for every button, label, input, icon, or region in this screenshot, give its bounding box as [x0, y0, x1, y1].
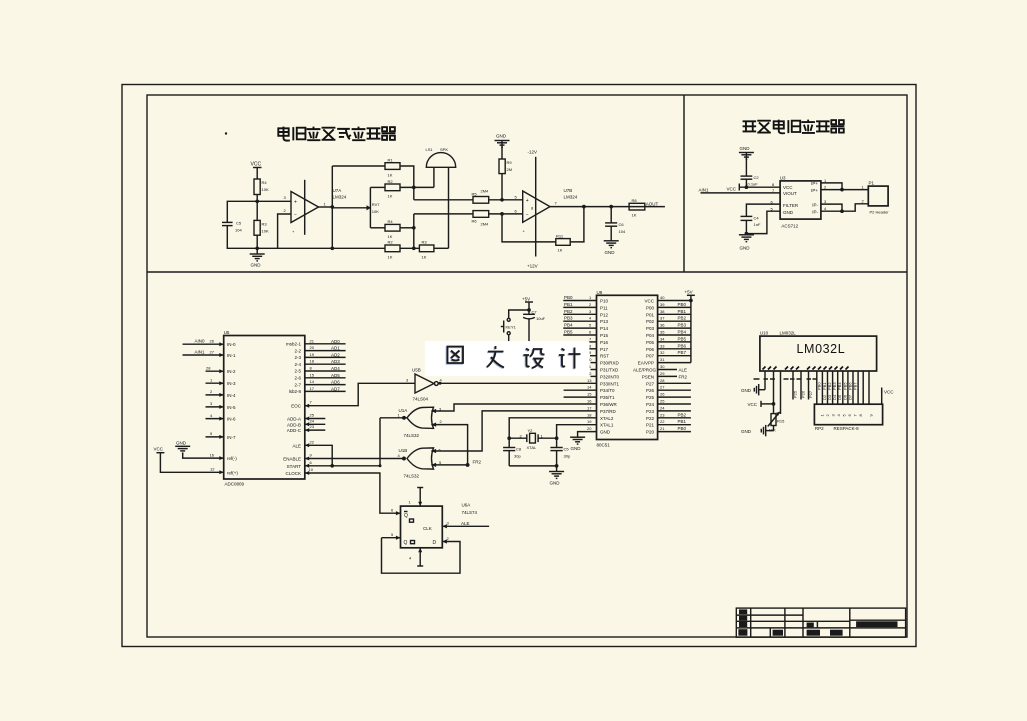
capacitor C5 104: [222, 221, 242, 233]
wire GND to ref(-) pin16: [183, 452, 224, 460]
svg-text:P11: P11: [600, 305, 608, 310]
wire U1B input6 to P37: [431, 411, 596, 453]
svg-text:R4: R4: [262, 180, 268, 185]
svg-text:+5V: +5V: [685, 290, 693, 295]
svg-text:2-6: 2-6: [294, 376, 301, 381]
ground (ADC ref-): [175, 440, 190, 453]
wire inverting input feedback: [278, 214, 291, 248]
FF preset pin1: [409, 488, 424, 507]
wire EOC pin7 to inverter: [305, 383, 415, 407]
svg-text:GND: GND: [600, 430, 611, 435]
wire ADD-B pin24: [305, 418, 326, 426]
resistor network RP2 RESPACK-8: [814, 404, 882, 431]
ground (top of C2): [739, 146, 754, 176]
svg-text:R15: R15: [777, 419, 785, 424]
svg-text:GND: GND: [571, 446, 582, 451]
key switch KEY1: [501, 310, 529, 341]
junction at ground tap: [255, 246, 259, 250]
wires P00-P07 stubs with PB labels: [658, 302, 691, 356]
svg-text:EA/VPP: EA/VPP: [638, 361, 654, 366]
svg-text:IN-7: IN-7: [227, 435, 236, 440]
svg-text:39: 39: [660, 302, 665, 307]
svg-text:P27: P27: [646, 381, 655, 386]
svg-text:R8: R8: [632, 198, 638, 203]
svg-text:AD6: AD6: [331, 380, 340, 385]
svg-text:IP+: IP+: [811, 181, 818, 186]
svg-text:10K: 10K: [262, 187, 269, 192]
svg-text:U7B: U7B: [564, 188, 573, 193]
svg-text:PB0: PB0: [817, 382, 822, 390]
svg-text:15: 15: [310, 372, 315, 377]
VCC power symbol: [251, 162, 262, 180]
svg-text:25: 25: [310, 413, 315, 418]
power -12V: [528, 150, 538, 155]
svg-text:P10: P10: [600, 299, 609, 304]
svg-text:VCC: VCC: [644, 299, 654, 304]
svg-text:+: +: [526, 198, 529, 204]
wire bridge top rail: [332, 165, 385, 167]
wire IN-5 pin3: [206, 401, 224, 409]
section divider horizontal: [147, 271, 907, 273]
svg-text:RESPACK-8: RESPACK-8: [834, 426, 860, 431]
svg-text:P26: P26: [646, 388, 655, 393]
svg-text:74LS04: 74LS04: [413, 397, 429, 402]
svg-text:ALE: ALE: [461, 521, 470, 526]
svg-text:IN-2: IN-2: [227, 369, 236, 374]
ground (C6): [604, 241, 619, 255]
svg-text:21: 21: [310, 338, 315, 343]
wires P16 P17 stubs: [587, 341, 597, 343]
svg-text:23: 23: [660, 412, 665, 417]
wire R5 to +input: [489, 199, 523, 201]
svg-text:IP-: IP-: [812, 210, 818, 215]
wire LCD pin3 to pot wiper: [780, 371, 782, 414]
wire rail mid: [400, 247, 419, 249]
wires P27-P23 stubs: [658, 382, 691, 384]
resistor R11 1K: [556, 234, 570, 253]
svg-text:U1A: U1A: [399, 408, 408, 413]
wire IN-6 pin4: [206, 413, 224, 421]
crystal Y2 XTAL: [507, 428, 558, 450]
svg-text:+5V: +5V: [522, 296, 530, 301]
svg-text:U5B: U5B: [412, 368, 421, 373]
svg-text:21: 21: [660, 426, 665, 431]
svg-text:P24: P24: [646, 402, 655, 407]
svg-text:C7: C7: [532, 310, 538, 315]
svg-text:P12: P12: [600, 312, 609, 317]
svg-text:ref(+): ref(+): [227, 470, 238, 475]
op-amp U7A LM324: [284, 180, 347, 235]
svg-text:+: +: [294, 199, 297, 205]
wire C4 to ground: [745, 220, 747, 233]
svg-text:P00: P00: [646, 305, 655, 310]
wire GND pin to ground: [746, 211, 780, 233]
wire FILTER to C4: [746, 204, 780, 216]
section divider vertical: [683, 95, 685, 272]
resistor R6 2M4: [472, 211, 490, 227]
svg-text:PB6: PB6: [678, 343, 687, 348]
svg-text:GND: GND: [176, 440, 187, 445]
svg-text:CLK: CLK: [423, 526, 432, 531]
wire C5 to bottom rail: [227, 226, 257, 249]
svg-text:AD3: AD3: [331, 359, 340, 364]
svg-text:-12V: -12V: [528, 150, 538, 155]
svg-text:20: 20: [587, 426, 592, 431]
svg-text:P25: P25: [792, 390, 797, 398]
svg-text:PB0: PB0: [564, 295, 573, 300]
resistor R1 1K: [385, 158, 400, 178]
op-amp U7B LM324: [515, 157, 578, 257]
svg-text:2M4: 2M4: [481, 189, 490, 194]
svg-text:R1: R1: [388, 158, 394, 163]
wire bridge mid rail: [370, 186, 385, 188]
wire feedback loop: [502, 207, 584, 242]
svg-text:19: 19: [310, 352, 315, 357]
svg-text:C2: C2: [754, 175, 760, 180]
svg-text:P2 Header: P2 Header: [870, 210, 890, 215]
wires P22-P20 stubs with labels: [658, 412, 691, 431]
svg-text:XTAL: XTAL: [527, 445, 537, 450]
svg-text:GND: GND: [550, 481, 561, 486]
svg-text:R2: R2: [388, 179, 394, 184]
svg-text:1K: 1K: [558, 248, 563, 253]
svg-text:2M4: 2M4: [481, 222, 490, 227]
svg-text:PB1: PB1: [678, 309, 687, 314]
svg-text:U5: U5: [224, 330, 230, 335]
capacitor C6 104: [605, 207, 626, 241]
svg-text:ADD-A: ADD-A: [287, 417, 301, 422]
wire opamp output: [319, 206, 333, 208]
OR gate U1A 74LS32 (mirrored): [398, 407, 443, 439]
svg-text:SPK: SPK: [440, 147, 448, 152]
svg-text:PB5: PB5: [678, 336, 687, 341]
svg-text:GND: GND: [783, 210, 794, 215]
svg-text:IP-: IP-: [812, 203, 818, 208]
svg-text:25: 25: [660, 399, 665, 404]
svg-text:18: 18: [587, 412, 592, 417]
svg-text:U1B: U1B: [399, 448, 408, 453]
svg-text:D: D: [433, 540, 437, 546]
svg-text:P30/RXD: P30/RXD: [600, 361, 620, 366]
svg-text:ref(-): ref(-): [227, 456, 237, 461]
wire speaker right leg: [448, 167, 450, 248]
svg-text:23: 23: [310, 424, 315, 429]
svg-text:VCC: VCC: [783, 185, 793, 190]
svg-text:P37/RD: P37/RD: [600, 409, 617, 414]
svg-text:C5: C5: [236, 221, 242, 226]
wires IP pins to P1: [821, 183, 868, 190]
svg-text:P15: P15: [600, 333, 609, 338]
svg-text:16: 16: [210, 452, 215, 457]
ground (crystal): [549, 472, 564, 486]
pot R15 10K: [766, 404, 785, 433]
svg-text:GND: GND: [605, 250, 616, 255]
wire U1A input3 to P36: [431, 404, 596, 413]
svg-text:15: 15: [587, 392, 592, 397]
wire bridge tap lower to R6: [414, 213, 473, 215]
svg-text:P03: P03: [646, 326, 655, 331]
ADC right labels: [283, 342, 302, 477]
svg-text:17: 17: [310, 386, 315, 391]
svg-text:IN-0: IN-0: [227, 342, 236, 347]
svg-text:AD7: AD7: [331, 386, 340, 391]
svg-text:Y2: Y2: [528, 428, 534, 433]
resistor R4 10K: [254, 179, 269, 195]
node output junction: [330, 205, 334, 209]
svg-text:38: 38: [660, 309, 665, 314]
svg-text:ALE/PROG: ALE/PROG: [633, 368, 657, 373]
svg-text:ENABLE: ENABLE: [283, 457, 301, 462]
svg-text:P02: P02: [646, 319, 655, 324]
power +5V (reset): [522, 296, 533, 312]
svg-text:P25: P25: [646, 395, 655, 400]
svg-text:PB4: PB4: [564, 323, 573, 328]
wire IN-4 pin2: [206, 389, 224, 397]
svg-text:P23: P23: [646, 409, 655, 414]
IC U9 80C51: [597, 290, 658, 448]
svg-text:ALE: ALE: [679, 368, 688, 373]
svg-text:P05: P05: [646, 340, 655, 345]
wire R1 right and down: [400, 166, 414, 200]
svg-text:PB7: PB7: [853, 382, 858, 390]
svg-text:28: 28: [660, 378, 665, 383]
svg-text:R2: R2: [388, 240, 394, 245]
svg-text:30p: 30p: [514, 454, 521, 459]
wire ENABLE pin9 to U1B output: [305, 452, 404, 460]
svg-text:GND: GND: [740, 146, 751, 151]
wires LCD RS RW E: [792, 371, 813, 400]
svg-text:27: 27: [660, 385, 665, 390]
svg-text:FILTER: FILTER: [783, 203, 799, 208]
svg-text:D7: D7: [847, 394, 852, 400]
svg-text:AIN1: AIN1: [195, 349, 206, 354]
svg-text:U7A: U7A: [333, 188, 342, 193]
svg-text:CLOCK: CLOCK: [285, 471, 301, 476]
resistor R5 2M4: [472, 189, 490, 204]
resistor R9 2M: [499, 159, 512, 174]
resistor R2 1K: [385, 179, 400, 199]
wires P34 P35 stubs: [564, 389, 597, 391]
ground: [250, 248, 265, 267]
svg-text:ACS712: ACS712: [781, 224, 798, 229]
ground (LCD pin1, rotated): [741, 384, 759, 395]
svg-text:R3: R3: [262, 222, 268, 227]
svg-text:AIN1: AIN1: [699, 187, 710, 192]
wire VCC to ref(+) pin12: [160, 453, 223, 475]
svg-text:12: 12: [210, 467, 215, 472]
svg-text:C8: C8: [516, 447, 522, 452]
wire VCC/EA rail: [658, 295, 693, 362]
svg-text:U9: U9: [597, 290, 603, 295]
svg-text:AD0: AD0: [331, 339, 340, 344]
svg-text:−: −: [526, 213, 529, 219]
svg-text:19: 19: [587, 419, 592, 424]
svg-text:104: 104: [235, 228, 242, 233]
svg-text:P13: P13: [600, 319, 609, 324]
svg-text:10uF: 10uF: [536, 316, 546, 321]
svg-text:1K: 1K: [388, 255, 393, 260]
svg-text:22: 22: [310, 439, 315, 444]
svg-text:PB2: PB2: [678, 316, 687, 321]
svg-text:0.1uF: 0.1uF: [748, 182, 759, 187]
svg-text:24: 24: [310, 418, 315, 423]
ground (top, R9): [495, 134, 510, 160]
svg-text:20: 20: [310, 345, 315, 350]
svg-text:−: −: [294, 212, 297, 218]
FF pin5 wire + feedback loop to D pin2: [382, 532, 461, 573]
svg-text:80C51: 80C51: [597, 443, 611, 448]
svg-text:ADD-C: ADD-C: [287, 428, 302, 433]
speaker LS1: [426, 147, 456, 167]
svg-text:27: 27: [210, 349, 215, 354]
svg-text:START: START: [287, 464, 302, 469]
svg-text:R9: R9: [507, 160, 513, 165]
stray ink dot: [225, 132, 227, 134]
svg-text:13: 13: [587, 378, 592, 383]
wire rail to speaker right leg: [434, 247, 449, 249]
svg-text:31: 31: [660, 357, 665, 362]
LCD pin name dashes: [754, 378, 817, 380]
wire ADD-C pin23: [305, 424, 326, 432]
svg-text:GND: GND: [741, 388, 752, 393]
svg-text:14: 14: [587, 385, 592, 390]
svg-text:2-5: 2-5: [294, 369, 301, 374]
svg-text:40: 40: [660, 295, 665, 300]
svg-text:74LS32: 74LS32: [404, 433, 420, 438]
ground (bottom): [739, 235, 754, 251]
wire MCU GND: [578, 432, 597, 438]
MCU left pin labels: [600, 299, 620, 435]
svg-text:AD5: AD5: [331, 373, 340, 378]
power VCC (respack): [869, 388, 894, 405]
svg-text:P17: P17: [600, 347, 609, 352]
wire node to R3 and R3 to rail: [256, 201, 258, 220]
svg-text:RST: RST: [600, 354, 609, 359]
ADC data bus wires with AD labels: [305, 338, 346, 391]
svg-text:1K: 1K: [422, 255, 427, 260]
wire U7B output: [550, 206, 665, 208]
svg-text:ADC0809: ADC0809: [225, 482, 245, 487]
wire output vertical rail: [331, 166, 333, 248]
wire inverter output to P33: [438, 382, 596, 385]
wire bridge lower rail: [370, 227, 385, 229]
IC U5 ADC0809: [224, 330, 305, 487]
svg-text:10K: 10K: [262, 229, 269, 234]
wire IN-1 with AIN1 label pin27: [183, 349, 224, 357]
svg-text:U10: U10: [760, 331, 769, 336]
svg-text:FR2: FR2: [679, 374, 688, 379]
svg-text:P1: P1: [869, 181, 875, 186]
svg-text:14: 14: [310, 379, 315, 384]
svg-text:R11: R11: [556, 234, 564, 239]
wires LCD data comb to respack: [817, 371, 864, 404]
svg-text:msb2-1: msb2-1: [286, 342, 302, 347]
wire XTAL2 to crystal: [509, 418, 596, 438]
svg-text:P34/T0: P34/T0: [600, 388, 615, 393]
svg-text:2-4: 2-4: [294, 362, 301, 367]
svg-text:29: 29: [660, 371, 665, 376]
wire crystal bottom rail: [509, 464, 558, 471]
svg-text:AD4: AD4: [331, 366, 340, 371]
wire U1A output to START: [380, 416, 407, 466]
svg-text:RV7: RV7: [372, 202, 380, 207]
svg-text:GND: GND: [741, 429, 752, 434]
power VCC (LCD pin2): [748, 371, 776, 407]
svg-text:GND: GND: [251, 263, 262, 268]
svg-text:26: 26: [660, 392, 665, 397]
svg-text:PB2: PB2: [678, 412, 687, 417]
wire XTAL1 to crystal: [557, 425, 597, 439]
svg-text:1K: 1K: [388, 194, 393, 199]
svg-text:2-7: 2-7: [294, 382, 301, 387]
svg-text:17: 17: [587, 405, 592, 410]
svg-text:PB3: PB3: [564, 316, 573, 321]
svg-text:VCC: VCC: [251, 162, 262, 168]
svg-text:22: 22: [660, 419, 665, 424]
svg-text:AOUT: AOUT: [646, 201, 659, 206]
svg-text:IN-6: IN-6: [227, 417, 236, 422]
inverter U5B 74LS04: [406, 368, 443, 402]
svg-text:ALE: ALE: [292, 443, 301, 448]
capacitor C7 10uF: [523, 310, 546, 342]
wire LCD pin1 to GND: [759, 371, 765, 390]
svg-text:Q: Q: [404, 513, 408, 519]
connector P1 header: [862, 181, 890, 215]
svg-text:+12V: +12V: [527, 264, 538, 269]
svg-text:35: 35: [660, 330, 665, 335]
svg-text:26: 26: [210, 339, 215, 344]
svg-text:R6: R6: [472, 219, 478, 224]
svg-text:PB0: PB0: [678, 302, 687, 307]
resistor R2b 1K (rail): [385, 240, 400, 260]
svg-text:R4: R4: [388, 219, 394, 224]
svg-text:33: 33: [660, 343, 665, 348]
svg-text:IN-4: IN-4: [227, 393, 236, 398]
svg-text:AD1: AD1: [331, 346, 340, 351]
svg-text:XTAL1: XTAL1: [600, 423, 614, 428]
svg-text:GND: GND: [740, 246, 751, 251]
FF clear pin4: [409, 548, 423, 566]
wire START pin6: [305, 460, 382, 468]
IC U3 ACS712: [771, 176, 828, 229]
MCU right pin labels: [633, 299, 657, 435]
wire respack common to VCC: [868, 371, 870, 404]
power VCC: [727, 184, 740, 192]
wire IN-3 pin1: [206, 378, 224, 386]
svg-text:U3: U3: [780, 176, 786, 181]
power +5V (MCU): [685, 290, 695, 296]
wires P30 P31 P32 stubs: [591, 362, 597, 364]
OR gate U1B 74LS32 (mirrored): [398, 448, 443, 479]
wire IN-7 pin5: [206, 431, 224, 439]
svg-text:2-3: 2-3: [294, 355, 301, 360]
svg-text:1nF: 1nF: [754, 222, 761, 227]
svg-text:PB5: PB5: [564, 330, 573, 335]
svg-text:VCC: VCC: [154, 447, 164, 452]
title 电阻应变式传感器: [278, 127, 395, 141]
svg-text:P21: P21: [646, 423, 655, 428]
resistor R3 10K: [254, 220, 269, 235]
wire speaker left leg: [433, 167, 435, 187]
svg-text:PB1: PB1: [678, 419, 687, 424]
svg-text:P27: P27: [808, 390, 813, 398]
svg-text:FR2: FR2: [473, 460, 482, 465]
svg-text:10K: 10K: [372, 209, 379, 214]
svg-text:AIN0: AIN0: [195, 339, 206, 344]
svg-text:U6A: U6A: [462, 503, 471, 508]
svg-text:IN-5: IN-5: [227, 405, 236, 410]
wire CLOCK pin10 down to FF: [305, 467, 401, 513]
